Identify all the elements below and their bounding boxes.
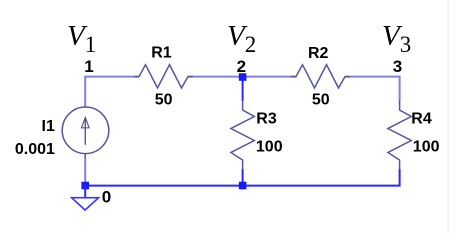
svg-text:100: 100 [256,139,283,156]
svg-text:R2: R2 [308,45,329,62]
svg-text:0.001: 0.001 [15,141,55,158]
ground stem [84,186,86,198]
current source I1 arrow head [82,117,90,127]
svg-text:2: 2 [237,57,246,76]
wire node1 vertical down to I1 [84,76,86,108]
svg-text:V3: V3 [382,20,411,57]
svg-text:V2: V2 [227,20,256,57]
wire R2 to node3 horizontal [345,76,400,78]
svg-text:0: 0 [102,187,111,206]
wire node2 vertical down to R3 (highlighted) [242,77,244,101]
wire R1 to node2 to R2 horizontal [188,76,296,78]
pin stub below I1 [84,154,86,160]
junction square node 2 [239,73,247,81]
junction square R3 bottom [239,182,247,190]
svg-text:R4: R4 [411,110,432,127]
svg-text:1: 1 [84,57,93,76]
svg-text:R3: R3 [256,110,277,127]
resistor R1 [134,65,193,88]
svg-text:R1: R1 [151,44,172,61]
svg-text:50: 50 [312,91,330,108]
ground symbol triangle [72,198,99,210]
wire bottom ground rail (highlighted) [85,185,399,187]
current source I1 circle [62,107,109,154]
current source I1 arrow shaft [84,119,86,145]
svg-text:V1: V1 [67,20,96,57]
svg-text:50: 50 [155,91,173,108]
wire R3 bottom to ground rail (highlighted) [242,169,244,186]
wire I1 bottom to ground junction [84,158,86,183]
faint window divider line [447,0,449,233]
svg-text:I1: I1 [42,118,55,135]
svg-text:100: 100 [413,139,440,156]
resistor R2 [291,65,350,88]
wire top-left horizontal node1 to R1 [85,76,139,78]
wire R4 bottom to ground rail (highlighted) [399,169,401,187]
wire node3 vertical down to R4 [399,76,401,101]
resistor R4 [388,100,411,170]
junction square ground [81,182,89,190]
svg-text:3: 3 [393,57,402,76]
resistor R3 [231,100,254,170]
